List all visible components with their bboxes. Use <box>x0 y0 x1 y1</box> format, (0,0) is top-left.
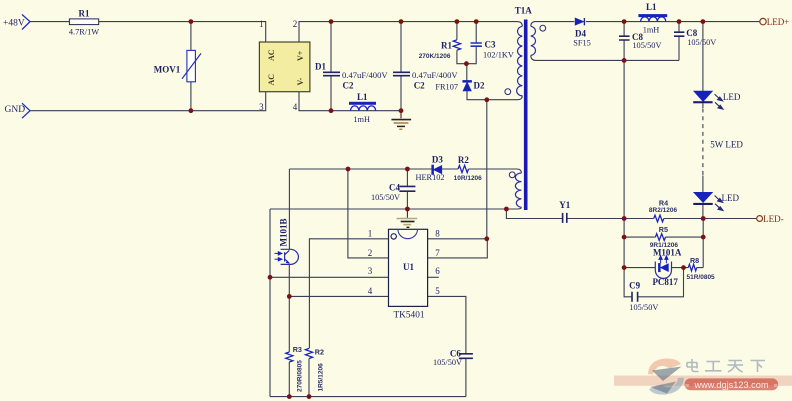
svg-text:7: 7 <box>435 248 440 258</box>
svg-text:L1: L1 <box>646 2 657 12</box>
svg-text:10R/1206: 10R/1206 <box>454 175 483 182</box>
svg-text:M101B: M101B <box>278 219 288 247</box>
svg-text:M101A: M101A <box>653 248 682 258</box>
svg-text:4.7R/1W: 4.7R/1W <box>69 27 99 36</box>
svg-text:HER102: HER102 <box>415 173 444 182</box>
svg-text:0.47uF/400V: 0.47uF/400V <box>342 70 388 80</box>
svg-text:MOV1: MOV1 <box>154 64 181 74</box>
svg-text:270R/0805: 270R/0805 <box>297 360 304 392</box>
svg-text:www.dgjs123.com: www.dgjs123.com <box>693 380 768 390</box>
svg-text:≡: ≡ <box>773 383 777 390</box>
svg-text:FR107: FR107 <box>435 82 458 91</box>
svg-text:1mH: 1mH <box>353 115 370 124</box>
svg-text:105/50V: 105/50V <box>433 358 462 367</box>
svg-text:D2: D2 <box>474 81 485 91</box>
svg-text:GND: GND <box>5 105 26 115</box>
svg-text:T1A: T1A <box>515 5 533 15</box>
svg-text:2: 2 <box>368 248 373 258</box>
svg-text:1: 1 <box>259 19 264 29</box>
svg-text:R2: R2 <box>315 348 324 357</box>
svg-text:6: 6 <box>435 266 440 276</box>
svg-text:5: 5 <box>435 286 440 296</box>
svg-text:102/1KV: 102/1KV <box>483 51 514 60</box>
svg-text:L1: L1 <box>357 92 368 102</box>
svg-text:1: 1 <box>368 228 373 238</box>
svg-text:105/50V: 105/50V <box>632 41 661 50</box>
svg-text:105/50V: 105/50V <box>371 193 400 202</box>
svg-text:Y1: Y1 <box>559 200 570 210</box>
svg-text:AC: AC <box>267 74 276 86</box>
svg-text:R2: R2 <box>458 155 469 165</box>
svg-text:R3: R3 <box>293 345 302 354</box>
svg-text:270K/1206: 270K/1206 <box>419 53 451 60</box>
svg-text:C3: C3 <box>485 39 496 49</box>
svg-text:D3: D3 <box>432 155 443 165</box>
svg-text:LED+: LED+ <box>767 17 790 27</box>
svg-text:≡: ≡ <box>685 383 689 390</box>
svg-text:105/50V: 105/50V <box>629 303 658 312</box>
svg-text:51R/0805: 51R/0805 <box>686 274 715 281</box>
svg-text:0.47uF/400V: 0.47uF/400V <box>412 70 458 80</box>
svg-text:C9: C9 <box>629 281 640 291</box>
svg-text:R8: R8 <box>690 256 699 265</box>
svg-text:C2: C2 <box>343 81 354 91</box>
svg-text:V+: V+ <box>296 50 305 61</box>
svg-text:TK5401: TK5401 <box>394 310 425 320</box>
svg-text:R5: R5 <box>659 225 668 234</box>
svg-text:105/50V: 105/50V <box>687 38 716 47</box>
svg-text:8R2/1206: 8R2/1206 <box>649 207 678 214</box>
svg-text:LED-: LED- <box>763 214 784 224</box>
svg-text:1mH: 1mH <box>643 25 660 34</box>
svg-text:C4: C4 <box>389 183 400 193</box>
svg-text:V-: V- <box>296 77 305 85</box>
svg-text:+48V: +48V <box>3 18 25 28</box>
svg-text:4: 4 <box>368 286 373 296</box>
svg-text:PC817: PC817 <box>652 277 678 287</box>
svg-text:R1: R1 <box>79 9 90 19</box>
svg-text:LED: LED <box>722 193 740 203</box>
svg-text:U1: U1 <box>403 262 414 272</box>
svg-text:2: 2 <box>293 19 298 29</box>
svg-text:1R5/1206: 1R5/1206 <box>318 363 325 392</box>
svg-text:C8: C8 <box>686 28 697 38</box>
svg-text:D4: D4 <box>575 28 586 38</box>
svg-text:SF15: SF15 <box>573 39 591 48</box>
svg-text:3: 3 <box>368 266 373 276</box>
svg-text:LED: LED <box>723 92 741 102</box>
svg-text:4: 4 <box>293 102 298 112</box>
svg-text:R1: R1 <box>441 41 452 51</box>
svg-text:C2: C2 <box>414 81 425 91</box>
svg-text:5W LED: 5W LED <box>710 139 743 149</box>
svg-text:D1: D1 <box>315 62 326 72</box>
svg-text:3: 3 <box>259 102 264 112</box>
svg-text:AC: AC <box>267 49 276 61</box>
svg-text:8: 8 <box>435 228 440 238</box>
